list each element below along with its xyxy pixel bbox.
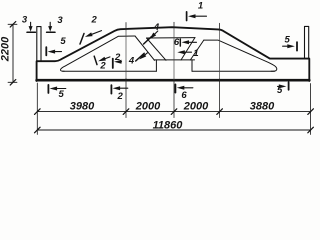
section 6 void mark	[179, 39, 181, 46]
svg-text:5: 5	[285, 34, 291, 45]
diagonal strut left, inner edge	[147, 38, 167, 60]
section 4 upper mark	[144, 37, 152, 44]
svg-text:4: 4	[153, 22, 160, 33]
inner slope left with rounded corner	[60, 36, 135, 71]
svg-text:2000: 2000	[183, 101, 209, 113]
section 4-4 lower arrowhead	[139, 53, 146, 59]
section 3-3 left arrowhead	[29, 26, 33, 32]
svg-text:11860: 11860	[153, 120, 184, 132]
pedestal right edge	[191, 60, 193, 71]
section 2 slope-upper mark	[80, 34, 84, 45]
svg-text:4: 4	[128, 55, 135, 66]
svg-text:5: 5	[60, 36, 66, 47]
section 1 top mark	[186, 12, 188, 21]
section 5 left-bottom mark	[47, 85, 49, 93]
section 5 left-top mark	[45, 47, 47, 55]
section 6-6 void arrowhead	[182, 40, 190, 44]
arrowheads	[29, 14, 295, 90]
dimension line row1	[37, 111, 310, 113]
section 5 right-top mark	[296, 42, 298, 50]
2200 slashes	[10, 22, 16, 28]
diagonal strut right, outer edge	[190, 40, 204, 60]
extension line x=174	[173, 22, 175, 28]
section 1-1 top arrowhead	[188, 14, 196, 18]
slab top line left	[63, 70, 157, 72]
left post	[37, 27, 41, 62]
section 2 slope-lower mark	[94, 56, 97, 64]
svg-text:2: 2	[91, 15, 98, 26]
section 5 right-bottom mark	[288, 82, 290, 90]
slash ticks row2	[35, 127, 41, 133]
pedestal top	[154, 59, 195, 61]
slab top line right	[192, 70, 275, 72]
svg-text:2200: 2200	[0, 36, 12, 62]
extension line left end	[36, 83, 38, 135]
section 6-6 bottom arrowhead	[177, 86, 185, 90]
section 5-5 right lower arrowhead	[279, 84, 287, 88]
pedestal left edge	[155, 60, 157, 71]
svg-text:1: 1	[198, 0, 203, 11]
diagonal strut right, inner edge	[181, 38, 195, 61]
svg-text:5: 5	[59, 89, 65, 100]
dimension line row2	[37, 129, 310, 131]
svg-text:1: 1	[193, 48, 198, 59]
section 2-2 slope upper arrowhead	[85, 32, 93, 37]
svg-text:3: 3	[57, 15, 63, 26]
slash ticks row1	[35, 109, 314, 133]
section 3 left arrow	[27, 12, 297, 94]
svg-text:3880: 3880	[250, 101, 275, 113]
section 2-2 slope lower arrowhead	[98, 57, 106, 61]
right post	[305, 26, 309, 58]
section 5-5 left lower arrowhead	[50, 87, 58, 91]
section 6 bottom mark	[174, 84, 176, 92]
svg-text:3980: 3980	[70, 101, 95, 113]
inner slope right with rounded corner	[204, 40, 277, 71]
diagonal strut left, outer edge	[135, 36, 155, 60]
2200 vertical dimension line	[12, 24, 14, 82]
truss outer top outline	[37, 27, 310, 81]
extension line right end	[310, 84, 312, 135]
svg-text:6: 6	[174, 37, 180, 48]
section 3 right arrow	[49, 22, 51, 27]
section 4-4 upper arrowhead	[149, 33, 156, 40]
2200 top extension	[8, 23, 17, 25]
2200 bottom extension	[8, 81, 17, 83]
svg-text:2: 2	[116, 91, 123, 102]
section 5-5 left upper arrowhead	[48, 50, 56, 54]
svg-text:2000: 2000	[135, 101, 161, 113]
slab bottom edge	[37, 79, 310, 82]
section 2-2 vertical upper arrowhead	[114, 60, 122, 64]
section 3-3 right arrowhead	[48, 26, 52, 32]
section 1-1 void arrowhead	[177, 50, 185, 54]
section 4 lower mark	[136, 53, 145, 61]
extension line x=219.6	[219, 23, 221, 30]
svg-text:5: 5	[277, 85, 283, 96]
section 1 void mark	[181, 51, 192, 53]
svg-text:2: 2	[114, 52, 121, 63]
extension line x=126	[125, 23, 127, 31]
section 2 vertical-upper mark	[112, 59, 114, 68]
svg-text:3: 3	[22, 15, 28, 26]
section 5-5 right upper arrowhead	[287, 44, 295, 48]
central void top edge	[147, 37, 196, 39]
svg-text:6: 6	[181, 90, 187, 101]
section 2 vertical-lower mark	[110, 85, 112, 94]
svg-text:2: 2	[99, 60, 106, 71]
section 2-2 vertical lower arrowhead	[113, 86, 121, 90]
